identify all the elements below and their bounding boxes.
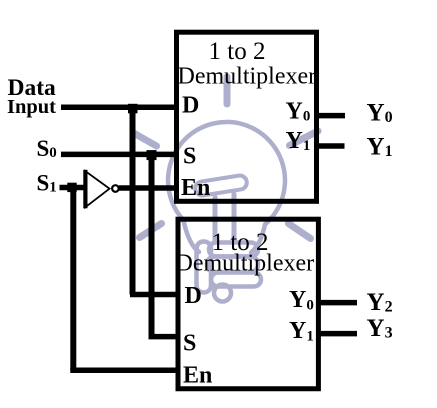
svg-text:S: S <box>183 144 196 170</box>
svg-text:1 to 2: 1 to 2 <box>209 38 266 65</box>
svg-text:Input: Input <box>7 96 56 118</box>
wire S0 to U1 S <box>61 152 178 158</box>
U2 title <box>176 229 315 277</box>
wire inverter to U1 En <box>119 185 178 191</box>
node junction on Data wire <box>128 104 138 114</box>
wire U2 D horizontal <box>130 292 180 298</box>
svg-text:Y1: Y1 <box>367 134 393 161</box>
svg-text:En: En <box>183 363 212 389</box>
svg-text:Y1: Y1 <box>289 318 314 344</box>
demultiplexer U2 box <box>178 219 318 389</box>
wire S1 to inverter <box>60 185 86 191</box>
svg-text:En: En <box>181 175 210 201</box>
svg-text:Demultiplexer: Demultiplexer <box>176 251 315 277</box>
node junction on S1 wire <box>67 183 76 192</box>
svg-text:Y0: Y0 <box>289 287 314 313</box>
wire Y0 stub <box>314 113 345 119</box>
svg-text:Y3: Y3 <box>367 315 393 342</box>
U1 title <box>178 38 317 89</box>
wire vertical S1 to U2 En <box>70 188 76 371</box>
svg-text:Y2: Y2 <box>367 289 393 316</box>
svg-text:S1: S1 <box>37 171 57 196</box>
svg-text:Y0: Y0 <box>286 98 311 124</box>
svg-text:Y0: Y0 <box>367 100 393 127</box>
wire Y2 stub <box>316 300 357 306</box>
wire Y1 stub <box>314 143 345 149</box>
watermark light-bulb logo <box>135 77 319 302</box>
svg-text:S: S <box>183 331 196 357</box>
wire U2 S horizontal <box>149 334 181 340</box>
wire Y3 stub <box>316 331 357 337</box>
node junction on S0 wire <box>147 150 157 160</box>
wire vertical Data to U2 D <box>130 107 136 294</box>
inverter NOT gate <box>85 170 119 209</box>
svg-text:D: D <box>185 283 202 309</box>
svg-text:Demultiplexer: Demultiplexer <box>178 63 317 89</box>
wire Data Input to U1 D <box>61 105 178 111</box>
demultiplexer U1 box <box>177 32 317 201</box>
svg-text:D: D <box>182 93 199 119</box>
wire vertical S0 to U2 S <box>149 154 155 336</box>
svg-text:Y1: Y1 <box>286 128 311 154</box>
wire U2 En horizontal <box>70 368 179 374</box>
svg-text:S0: S0 <box>37 136 57 161</box>
